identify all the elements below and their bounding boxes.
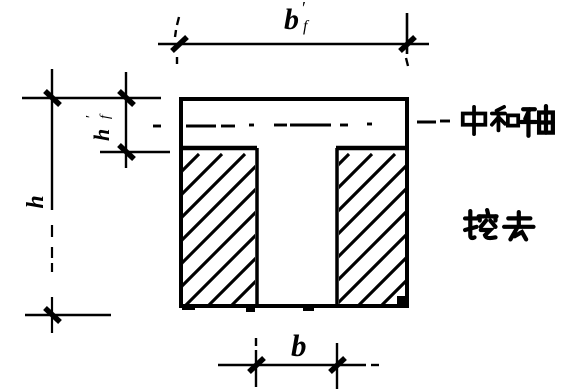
svg-text:b: b (284, 3, 299, 36)
dimension b'f: left extension dashes (175, 17, 179, 64)
svg-text:h: h (23, 195, 49, 208)
svg-text:′: ′ (84, 115, 99, 118)
scan blob bottom-right corner (397, 296, 406, 305)
char 轴 (521, 106, 553, 136)
svg-text:h: h (89, 129, 114, 141)
dimension b: small dash right of line end (371, 364, 379, 366)
svg-text:b: b (291, 328, 307, 363)
dimension h'f: top tick (119, 91, 134, 105)
scan blob under bottom edge left (246, 308, 255, 312)
dimension b: left tick (249, 358, 264, 372)
web right edge (335, 148, 339, 306)
dimension h'f: bottom extension line (100, 151, 170, 153)
T-section outer outline (181, 99, 407, 306)
char 挖 (465, 210, 497, 238)
dimension b'f: right lower dash (406, 58, 408, 66)
svg-text:′: ′ (302, 0, 306, 18)
dimension b: left extension line (255, 338, 257, 387)
dimension h: bottom extension line (25, 314, 111, 316)
dimension b: right extension line (336, 343, 338, 389)
dimension h: bottom tick (45, 308, 60, 322)
char 去 (504, 212, 533, 239)
flange bottom edge left segment (181, 146, 257, 151)
left hatched cut-away block (0, 154, 383, 354)
right hatched cut-away block (103, 154, 533, 354)
dimension b'f: right extension line (406, 13, 409, 54)
dimension h: dimension line (upper solid part) (51, 69, 53, 210)
dimension b: right tick (330, 358, 345, 372)
char 和 (492, 107, 518, 131)
label 挖去 (cut away) (465, 210, 533, 239)
dimension b'f: dimension line (158, 43, 429, 45)
dimension h: top tick (45, 91, 60, 105)
dimension h'f: bottom tick (119, 145, 134, 159)
scan blob under bottom edge right (303, 307, 314, 311)
char 中 (463, 107, 486, 134)
scan blob bottom-left corner (182, 306, 195, 310)
dimension h'f: dimension line (125, 72, 127, 168)
dimension h: dimension line (lower dashed part) (51, 225, 53, 333)
dimension h: top extension line (22, 97, 161, 99)
dimension b: dimension line (218, 364, 366, 366)
dimension h'f: label (84, 113, 114, 141)
label 中和轴 (neutral axis) (463, 106, 553, 136)
neutral axis dash-dot line (153, 121, 450, 126)
web left edge (255, 148, 259, 306)
flange bottom edge right segment (336, 146, 407, 151)
dimension b'f: label (284, 0, 310, 36)
dimension b'f: right tick (400, 37, 415, 51)
dimension b'f: left tick (172, 37, 187, 51)
